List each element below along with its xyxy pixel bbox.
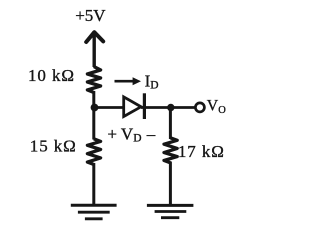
diode D1 cathode bar <box>143 93 146 119</box>
+5V arrow (power symbol) <box>86 32 103 67</box>
resistor R 15k (zigzag) <box>87 139 100 165</box>
diode D1 triangle (anode) <box>124 97 141 117</box>
node A junction dot <box>91 104 99 112</box>
current arrow I_D <box>115 77 142 85</box>
wire: 17k bottom to right ground <box>169 162 172 206</box>
output terminal circle Vo <box>195 103 204 112</box>
ground (left) <box>71 205 117 219</box>
svg-text:15 kΩ: 15 kΩ <box>30 137 77 156</box>
svg-text:VO: VO <box>207 98 226 117</box>
svg-text:10 kΩ: 10 kΩ <box>28 66 75 85</box>
wire: 15k bottom to left ground <box>92 163 95 205</box>
svg-text:17 kΩ: 17 kΩ <box>178 142 225 161</box>
svg-text:ID: ID <box>145 72 159 92</box>
resistor R 10k (zigzag) <box>87 67 100 93</box>
wire: node B down to 17k top (right rail) <box>169 108 172 140</box>
resistor R 17k (zigzag) <box>164 138 177 163</box>
wire: diode cathode to output circle <box>141 106 196 109</box>
svg-text:+5V: +5V <box>75 6 106 25</box>
svg-text:+ VD –: + VD – <box>107 124 155 144</box>
wire: 10k bottom to 15k top (left rail) <box>92 91 95 140</box>
node B junction dot <box>167 104 174 111</box>
wire: node A to diode anode <box>94 106 125 109</box>
ground (right) <box>147 205 194 217</box>
